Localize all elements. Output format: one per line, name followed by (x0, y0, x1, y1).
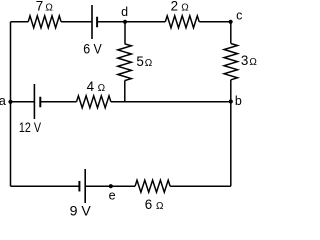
svg-text:Ω: Ω (249, 57, 257, 68)
svg-text:c: c (236, 8, 242, 22)
svg-text:5: 5 (136, 54, 143, 69)
svg-text:4: 4 (87, 79, 95, 94)
svg-text:6 V: 6 V (83, 42, 102, 57)
svg-text:7: 7 (36, 0, 43, 14)
svg-text:Ω: Ω (45, 3, 53, 14)
svg-text:b: b (235, 94, 242, 108)
svg-text:Ω: Ω (156, 201, 164, 212)
svg-text:Ω: Ω (181, 3, 189, 14)
svg-text:Ω: Ω (98, 83, 106, 94)
svg-text:a: a (0, 94, 6, 108)
svg-text:3: 3 (241, 53, 248, 68)
svg-text:9 V: 9 V (70, 204, 92, 217)
svg-text:d: d (121, 5, 128, 19)
svg-text:2: 2 (171, 0, 178, 14)
svg-text:6: 6 (145, 197, 152, 212)
svg-text:Ω: Ω (145, 58, 153, 69)
svg-text:e: e (109, 189, 116, 203)
svg-text:12 V: 12 V (19, 120, 42, 135)
